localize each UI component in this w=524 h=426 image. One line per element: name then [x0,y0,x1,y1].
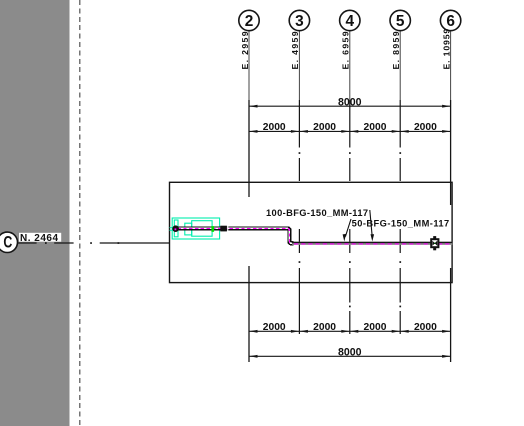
svg-text:8000: 8000 [338,347,362,359]
dimension 8000 top [249,96,451,108]
equipment inner rect middle [185,223,192,235]
equipment inner rect right [192,221,212,237]
flange pair on 100 pipe [220,225,228,232]
pipe 50-BFG run [292,242,452,244]
grid bubble 2 [239,10,259,30]
svg-text:2000: 2000 [414,122,437,133]
grid bubble 6 [440,10,460,30]
drawing border dashed line [79,0,81,426]
svg-text:5: 5 [396,13,405,30]
gray sidebar [0,0,70,426]
grid bubble 3 [289,10,309,30]
svg-text:50-BFG-150_MM-117: 50-BFG-150_MM-117 [352,219,450,229]
row centerline C (N.2464) [18,242,170,244]
svg-text:6: 6 [446,13,455,30]
svg-text:N. 2464: N. 2464 [20,233,59,244]
svg-text:2000: 2000 [263,122,286,133]
svg-text:E. 2959: E. 2959 [240,30,250,69]
svg-text:C: C [3,234,12,252]
label N. 2464 [19,233,61,244]
svg-text:E. 8959: E. 8959 [391,30,401,69]
svg-text:100-BFG-150_MM-117: 100-BFG-150_MM-117 [266,208,368,218]
svg-text:2: 2 [245,13,254,30]
dimension 2000 top row [249,130,451,132]
svg-text:2000: 2000 [364,322,387,333]
dimension 2000 bottom row [249,330,451,332]
svg-text:2000: 2000 [313,122,336,133]
equipment inner rect left [174,220,178,237]
svg-text:E. 6959: E. 6959 [341,30,351,69]
leader for label 50 [343,219,351,242]
svg-text:2000: 2000 [263,322,286,333]
pipe start node (dot) [172,225,179,232]
pipe 100-BFG run with elbow [176,228,294,243]
centerline grid 2 [248,31,250,362]
svg-text:4: 4 [346,13,355,30]
equipment nozzle lines [170,228,175,231]
valve on 50 pipe [430,236,439,250]
svg-text:E. 10959: E. 10959 [441,28,451,70]
centerline dots [299,152,402,307]
building outline [170,182,453,282]
green tick on pipe [211,226,214,232]
centerline grid 5 [399,31,401,334]
svg-text:2000: 2000 [313,322,336,333]
svg-text:8000: 8000 [338,96,362,108]
grid bubble 4 [340,10,360,30]
svg-text:E. 4959: E. 4959 [290,30,300,69]
grid bubble 5 [390,10,410,30]
svg-text:2000: 2000 [364,122,387,133]
centerline grid 4 [349,31,351,334]
row bubble C [0,232,18,252]
svg-text:3: 3 [295,13,304,30]
leader for label 100 [370,210,374,242]
centerline grid 3 [298,31,300,334]
dimension 8000 bottom [249,347,451,359]
centerline grid 6 [450,31,452,362]
svg-text:2000: 2000 [414,322,437,333]
equipment outline (cyan) [172,218,219,239]
